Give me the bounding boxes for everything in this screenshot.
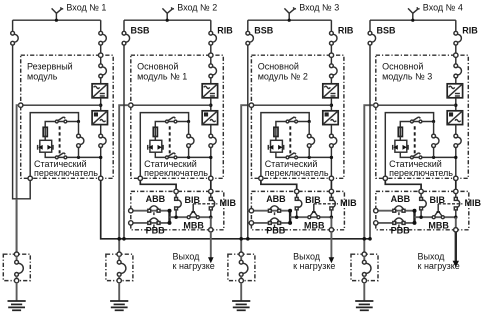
node inverter-output junction module 1: [99, 156, 102, 159]
rectifier input breaker module 1: [102, 34, 106, 42]
wire static left output jog module 2: [140, 180, 176, 189]
wire to output module 2: [210, 217, 212, 228]
wire PBB row module 4: [375, 222, 414, 224]
node isolator top terminal module 2: [117, 252, 121, 256]
maintenance isolator dashed box module 2: [106, 254, 133, 280]
wire DC bus to box edge module 4: [376, 104, 456, 106]
maintenance isolator breaker module 2: [118, 256, 120, 260]
input feed line module 2: [124, 19, 211, 21]
switch S1 module 4: [413, 117, 419, 121]
rectifier module 4: [447, 84, 462, 98]
wire feed to output isolator module 2: [119, 105, 129, 252]
wire static-switch top link module 2: [140, 113, 188, 177]
svg-text:к нагрузке: к нагрузке: [293, 261, 335, 271]
contactor ABB module 2: [149, 206, 158, 209]
maintenance isolator dashed box module 1: [3, 254, 30, 280]
node dist entry MIB module 2: [209, 189, 213, 193]
wire feed to output isolator module 3: [241, 105, 249, 252]
svg-text:Резервный: Резервный: [27, 61, 73, 71]
wire to internal breaker module 2: [210, 57, 212, 64]
fuse module 2: [153, 127, 157, 136]
wire ABB row module 2: [130, 210, 169, 212]
svg-text:MBB: MBB: [428, 221, 449, 231]
tie bar ABB-PBB module 2: [168, 210, 170, 224]
distribution dashed enclosure module 4: [376, 191, 469, 229]
node S2 junction module 1: [77, 156, 80, 159]
node ABB entry module 3: [249, 209, 253, 213]
node BIB junction module 2: [174, 216, 177, 219]
wire thyristor to bottom row module 1: [45, 152, 100, 157]
svg-text:Вход № 3: Вход № 3: [299, 3, 339, 13]
node box-top terminal module 1: [99, 53, 103, 57]
node dist entry MIB module 4: [454, 189, 458, 193]
MBB interlock link module 4: [437, 204, 439, 212]
inverter output breaker module 3: [333, 137, 337, 144]
node isolator top terminal module 4: [362, 252, 366, 256]
switch S1 module 3: [289, 117, 295, 121]
incoming mains symbol (Вход № 4): [412, 13, 414, 20]
node DC bus junction module 1: [99, 104, 102, 107]
wire bypass riser module 4: [433, 122, 435, 135]
svg-text:Вход № 4: Вход № 4: [423, 3, 463, 13]
module dashed enclosure 1: [21, 55, 114, 178]
wire BSB bypass down module 3: [247, 45, 249, 211]
switch S2 module 4: [413, 153, 419, 157]
wire BSB bypass down module 2: [123, 45, 125, 211]
wire MBB row module 4: [415, 216, 456, 218]
node S1 to riser junction module 4: [432, 120, 435, 123]
svg-text:PBB: PBB: [266, 226, 286, 236]
contactor PBB module 4: [394, 218, 403, 221]
fuse module 4: [398, 127, 402, 136]
node box-bottom right terminal module 2: [209, 176, 213, 180]
node tie to reserve bus module 3: [246, 237, 250, 241]
ground module 2: [118, 283, 120, 301]
node S2 junction module 2: [187, 156, 190, 159]
node input junction module 2: [166, 19, 169, 22]
wire rectifier to DC node module 3: [330, 98, 332, 111]
wire reserve static output to bus: [101, 180, 370, 238]
module dashed enclosure 4: [376, 55, 469, 178]
svg-text:BSB: BSB: [254, 26, 274, 36]
rectifier module 1: [92, 84, 107, 98]
node isolator top terminal module 3: [239, 252, 243, 256]
wire switch row module 2: [155, 122, 188, 128]
module dashed enclosure 2: [131, 55, 224, 178]
node box-left terminal module 3: [249, 103, 253, 107]
wire static right output module 3: [330, 180, 332, 189]
switch S1 module 1: [58, 117, 64, 121]
node isolator bottom terminal module 3: [239, 278, 243, 282]
node box-top terminal module 4: [454, 53, 458, 57]
node isolator bottom terminal module 2: [117, 278, 121, 282]
wire feed to output isolator module 1: [17, 105, 19, 252]
bypass static breaker module 3: [311, 137, 315, 144]
output arrow module 3: [330, 232, 332, 258]
inverter output breaker module 1: [102, 137, 106, 144]
node feed crosses bus module 4: [363, 237, 367, 241]
wire rectifier to DC node module 2: [210, 98, 212, 111]
svg-text:BSB: BSB: [377, 26, 397, 36]
node box-left terminal module 1: [19, 103, 23, 107]
wire static-switch top link module 3: [261, 113, 309, 177]
svg-text:MBB: MBB: [304, 221, 325, 231]
wire thyristor to bottom row module 2: [155, 152, 211, 157]
node dist exit module 2: [209, 228, 213, 232]
wire inverter output module 2: [210, 125, 212, 135]
inverter module 3: [323, 111, 338, 125]
maintenance isolator breaker module 4: [363, 256, 365, 260]
fuse module 1: [43, 127, 47, 136]
circuit breaker BSB module 4: [372, 34, 376, 42]
node input junction module 1: [55, 19, 58, 22]
wire to rectifier module 1: [100, 78, 102, 84]
wire inverter output module 3: [330, 125, 332, 135]
circuit breaker RIB module 3: [333, 34, 337, 42]
node box-top terminal module 2: [209, 53, 213, 57]
node PBB entry module 2: [129, 221, 133, 225]
node dist entry BIB module 3: [295, 189, 299, 193]
node box-bottom right terminal module 1: [99, 176, 103, 180]
wire switch row module 4: [400, 122, 433, 128]
output arrow module 2: [210, 232, 212, 258]
mechanical linkage module 1: [59, 126, 61, 153]
wire bypass riser module 1: [78, 122, 80, 135]
svg-text:Основной: Основной: [137, 61, 178, 71]
switch S2 module 2: [168, 153, 174, 157]
node DC bus junction module 4: [454, 104, 457, 107]
node isolator bottom terminal module 1: [14, 278, 18, 282]
circuit breaker RIB module 4: [458, 34, 462, 42]
wire DC bus to box edge module 1: [21, 104, 101, 106]
wire rectifier drop module 4: [455, 20, 457, 31]
svg-text:PBB: PBB: [391, 226, 411, 236]
switch S2 module 1: [58, 153, 64, 157]
MBB interlock link module 2: [192, 204, 194, 212]
mechanical linkage module 2: [169, 126, 171, 153]
maintenance isolator breaker module 1: [16, 256, 18, 260]
svg-text:переключатель: переключатель: [389, 168, 453, 178]
wire static left output jog module 3: [261, 180, 297, 189]
svg-text:Основной: Основной: [382, 61, 423, 71]
svg-text:Вход № 2: Вход № 2: [177, 3, 217, 13]
wire switch row module 1: [45, 122, 78, 128]
svg-text:RIB: RIB: [338, 26, 354, 36]
inverter output breaker module 2: [213, 137, 217, 144]
switch S2 module 3: [289, 153, 295, 157]
svg-text:Основной: Основной: [258, 61, 299, 71]
input feed line module 4: [370, 19, 456, 21]
wire static-switch top link module 1: [30, 113, 78, 177]
inverter output breaker module 4: [458, 137, 462, 144]
ground module 3: [240, 283, 242, 301]
wire ABB row module 4: [375, 210, 414, 212]
switch MBB module 4: [435, 212, 438, 216]
incoming mains symbol (Вход № 1): [55, 13, 57, 20]
svg-text:MIB: MIB: [220, 198, 237, 208]
wire to rectifier module 2: [210, 78, 212, 84]
input feed line module 3: [248, 19, 332, 21]
circuit breaker BIB module 2: [175, 194, 177, 198]
contactor ABB module 4: [394, 206, 403, 209]
wire thyristor to bottom row module 3: [276, 152, 332, 157]
node dist entry BIB module 4: [419, 189, 423, 193]
svg-text:модуль № 3: модуль № 3: [382, 71, 432, 81]
wire ABB row module 3: [251, 210, 290, 212]
wire inverter output module 1: [100, 125, 102, 135]
wire rectifier drop module 1: [100, 20, 102, 31]
wire into module box 4: [455, 45, 457, 53]
circuit breaker BSB module 2: [126, 34, 130, 42]
switch MBB module 2: [190, 212, 193, 216]
contactor ABB module 3: [270, 206, 279, 209]
node inverter-output junction module 3: [330, 156, 333, 159]
node inverter-output junction module 2: [209, 156, 212, 159]
wire to rectifier module 3: [330, 78, 332, 84]
wire bypass drop module 2: [123, 20, 125, 31]
node dist entry MIB module 3: [329, 189, 333, 193]
node ABB entry module 4: [374, 209, 378, 213]
wire bypass drop module 3: [247, 20, 249, 31]
svg-text:переключатель: переключатель: [144, 168, 208, 178]
incoming mains symbol (Вход № 2): [166, 13, 168, 20]
svg-text:Выход: Выход: [293, 251, 321, 261]
wire rectifier drop module 3: [330, 20, 332, 31]
node isolator bottom terminal module 4: [362, 278, 366, 282]
distribution dashed enclosure module 2: [131, 191, 224, 229]
node BIB junction module 3: [295, 216, 298, 219]
node BIB junction module 4: [419, 216, 422, 219]
svg-text:Выход: Выход: [418, 251, 446, 261]
inverter module 4: [447, 111, 462, 125]
node box-bottom left terminal module 3: [259, 176, 263, 180]
svg-text:переключатель: переключатель: [34, 168, 98, 178]
wire to internal breaker module 3: [330, 57, 332, 64]
circuit breaker RIB module 2: [213, 34, 217, 42]
svg-text:к нагрузке: к нагрузке: [418, 261, 460, 271]
node box-bottom left terminal module 1: [28, 176, 32, 180]
internal input breaker module 2: [213, 67, 217, 75]
node S2 junction module 3: [308, 156, 311, 159]
svg-text:ABB: ABB: [266, 194, 286, 204]
svg-text:Выход: Выход: [173, 251, 201, 261]
ground module 4: [363, 283, 365, 301]
wire to rectifier module 4: [455, 78, 457, 84]
svg-text:MBB: MBB: [183, 221, 204, 231]
node input junction module 3: [288, 19, 291, 22]
node MIB junction module 3: [330, 216, 333, 219]
contactor PBB module 2: [149, 218, 158, 221]
incoming mains symbol (Вход № 3): [288, 13, 290, 20]
wire MBB row module 3: [290, 216, 331, 218]
wire bypass drop module 1: [12, 20, 14, 31]
circuit breaker BSB module 3: [250, 34, 254, 42]
node box-bottom left terminal module 4: [383, 176, 387, 180]
node PBB entry module 3: [249, 221, 253, 225]
rectifier module 3: [323, 84, 338, 98]
wire bypass riser module 3: [308, 122, 310, 135]
tie bar ABB-PBB module 3: [289, 210, 291, 224]
node feed crosses bus module 2: [117, 237, 121, 241]
node S1 to riser junction module 2: [187, 120, 190, 123]
output arrow module 4: [455, 232, 457, 262]
bypass static breaker module 4: [435, 137, 439, 144]
static switch thyristor pair module 4: [395, 140, 407, 152]
node MIB junction module 4: [454, 216, 457, 219]
inverter module 2: [202, 111, 217, 125]
wire PBB row module 2: [130, 222, 169, 224]
node MIB junction module 2: [209, 216, 212, 219]
node box-left terminal module 2: [129, 103, 133, 107]
wire PBB row module 3: [251, 222, 290, 224]
fuse module 3: [274, 127, 278, 136]
wire bypass down to tie (reserve): [13, 45, 31, 199]
circuit breaker BIB module 4: [420, 194, 422, 198]
wire static left output jog module 4: [385, 180, 421, 189]
wire BSB bypass down module 4: [369, 45, 371, 211]
wire DC bus to box edge module 2: [131, 104, 211, 106]
node tie to reserve bus module 4: [368, 237, 372, 241]
contactor PBB module 3: [270, 218, 279, 221]
wire tie to maintenance isolator (reserve): [16, 199, 18, 252]
node DC bus junction module 3: [330, 104, 333, 107]
svg-text:ABB: ABB: [146, 194, 166, 204]
node box-top terminal module 3: [329, 53, 333, 57]
internal input breaker module 3: [333, 67, 337, 75]
wire bypass riser module 2: [188, 122, 190, 135]
node box-left terminal module 4: [374, 103, 378, 107]
tie bar ABB-PBB module 4: [413, 210, 415, 224]
wire rectifier to DC node module 1: [100, 98, 102, 111]
node dist exit module 4: [454, 228, 458, 232]
wire into module box 1: [100, 45, 102, 53]
svg-text:к нагрузке: к нагрузке: [173, 261, 215, 271]
module dashed enclosure 3: [251, 55, 344, 178]
switch MBB module 3: [310, 212, 313, 216]
bypass breaker module 1: [14, 34, 18, 42]
mechanical linkage module 4: [414, 126, 416, 153]
switch S1 module 2: [168, 117, 174, 121]
svg-text:Вход № 1: Вход № 1: [66, 3, 106, 13]
svg-text:модуль № 1: модуль № 1: [137, 71, 187, 81]
wire MBB row module 2: [170, 216, 211, 218]
circuit breaker MIB module 3: [330, 194, 332, 198]
input feed line module 1: [13, 19, 101, 21]
node inverter-output junction module 4: [454, 156, 457, 159]
maintenance isolator dashed box module 4: [351, 254, 378, 280]
node dist exit module 3: [329, 228, 333, 232]
wire into module box 2: [210, 45, 212, 53]
wire switch row module 3: [276, 122, 309, 128]
node ABB entry module 2: [129, 209, 133, 213]
wire DC bus to box edge module 3: [251, 104, 331, 106]
ground module 1: [16, 283, 18, 301]
internal input breaker module 4: [458, 67, 462, 75]
svg-text:MIB: MIB: [340, 198, 357, 208]
wire tie to ABB/PBB module 3: [247, 211, 249, 239]
node input junction module 4: [411, 19, 414, 22]
wire rectifier to DC node module 4: [455, 98, 457, 111]
wire to output module 4: [455, 217, 457, 228]
node box-bottom left terminal module 2: [138, 176, 142, 180]
wire thyristor to bottom row module 4: [400, 152, 456, 157]
distribution dashed enclosure module 3: [251, 191, 344, 229]
maintenance isolator dashed box module 3: [228, 254, 255, 280]
internal input breaker module 1: [102, 67, 106, 75]
svg-text:RIB: RIB: [462, 26, 478, 36]
wire tie to ABB/PBB module 2: [123, 211, 125, 239]
node PBB entry module 4: [374, 221, 378, 225]
circuit breaker BIB module 3: [296, 194, 298, 198]
wire bypass drop module 4: [369, 20, 371, 31]
node feed crosses bus module 3: [239, 237, 243, 241]
maintenance isolator breaker module 3: [240, 256, 242, 260]
inverter module 1: [92, 111, 107, 125]
wire tie to ABB/PBB module 4: [369, 211, 371, 239]
wire static-switch top link module 4: [385, 113, 433, 177]
svg-text:RIB: RIB: [217, 26, 233, 36]
wire inverter output module 4: [455, 125, 457, 135]
wire static right output module 2: [210, 180, 212, 189]
svg-text:PBB: PBB: [146, 226, 166, 236]
static switch thyristor pair module 1: [40, 140, 52, 152]
mechanical linkage module 3: [289, 126, 291, 153]
circuit breaker MIB module 2: [210, 194, 212, 198]
circuit breaker MIB module 4: [455, 194, 457, 198]
node S1 to riser junction module 1: [77, 120, 80, 123]
node box-bottom right terminal module 3: [329, 176, 333, 180]
svg-text:модуль: модуль: [27, 71, 58, 81]
wire static right output module 4: [455, 180, 457, 189]
static switch thyristor pair module 3: [271, 140, 283, 152]
wire into module box 3: [330, 45, 332, 53]
wire to internal breaker module 4: [455, 57, 457, 64]
node DC bus junction module 2: [209, 104, 212, 107]
node isolator top terminal module 1: [14, 252, 18, 256]
bypass static breaker module 1: [80, 137, 84, 144]
node box-bottom right terminal module 4: [454, 176, 458, 180]
wire to output module 3: [330, 217, 332, 228]
svg-text:MIB: MIB: [465, 198, 482, 208]
rectifier module 2: [202, 84, 217, 98]
node dist entry BIB module 2: [174, 189, 178, 193]
bypass static breaker module 2: [190, 137, 194, 144]
wire to internal breaker module 1: [100, 57, 102, 64]
MBB interlock link module 3: [313, 204, 315, 212]
wire rectifier drop module 2: [210, 20, 212, 31]
node S2 junction module 4: [432, 156, 435, 159]
wire feed to output isolator module 4: [364, 105, 374, 252]
svg-text:ABB: ABB: [391, 194, 411, 204]
svg-text:BSB: BSB: [131, 26, 151, 36]
node tie to reserve bus module 2: [122, 237, 126, 241]
static switch thyristor pair module 2: [150, 140, 162, 152]
svg-text:переключатель: переключатель: [265, 168, 329, 178]
node S1 to riser junction module 3: [308, 120, 311, 123]
svg-text:модуль № 2: модуль № 2: [258, 71, 308, 81]
